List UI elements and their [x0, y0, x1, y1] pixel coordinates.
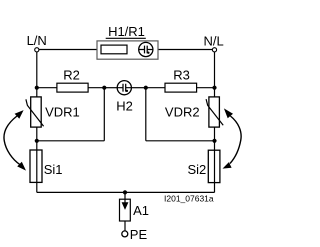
coupling arrow left (VDR1-Si1)	[4, 110, 26, 171]
wire vertical drop from node left of H2	[103, 88, 105, 141]
wire link H2-right drop to right rail	[146, 140, 215, 142]
wire right rail VDR2 to Si2	[214, 127, 216, 150]
lamp H2 (glow lamp)	[117, 81, 131, 95]
svg-text:Si1: Si1	[44, 162, 63, 177]
svg-text:N/L: N/L	[203, 33, 223, 48]
wire left rail mid node to VDR1	[36, 88, 38, 98]
resistor R2	[57, 83, 88, 92]
svg-text:VDR1: VDR1	[45, 104, 80, 119]
wire right rail mid node to VDR2	[214, 88, 216, 98]
wire right rail terminal to mid node	[214, 52, 216, 88]
wire R3 to right rail	[197, 87, 215, 89]
svg-text:L/N: L/N	[27, 33, 47, 48]
wire through fuse Si1	[36, 150, 38, 182]
terminal N/L	[212, 48, 216, 52]
node junction bottom A1	[123, 190, 127, 194]
wire A1 box bottom to PE terminal	[124, 221, 126, 231]
node junction right mid	[212, 86, 216, 90]
wire through fuse Si2	[214, 150, 216, 182]
wire H2 right electrode to node	[131, 87, 146, 89]
node junction right lower	[212, 139, 216, 143]
svg-text:Si2: Si2	[188, 162, 207, 177]
wire top-left from L/N terminal to H1/R1 box	[39, 49, 97, 51]
terminal PE	[122, 231, 128, 237]
svg-text:H1/R1: H1/R1	[108, 24, 145, 39]
wire left rail VDR1 to Si1	[36, 127, 38, 150]
svg-text:R3: R3	[173, 68, 190, 83]
fuse Si1	[30, 150, 42, 182]
enclosure box H1/R1	[97, 41, 158, 59]
wire left rail terminal to mid node	[36, 52, 38, 88]
resistor R1	[101, 45, 127, 54]
svg-text:I201_07631a: I201_07631a	[164, 194, 214, 204]
fuse Si2	[208, 150, 220, 182]
wire from H1/R1 box to N/L terminal	[158, 49, 212, 51]
svg-text:A1: A1	[133, 203, 149, 218]
svg-text:R2: R2	[63, 68, 80, 83]
node junction left of H2	[102, 86, 106, 90]
wire node to H2 left electrode	[104, 87, 117, 89]
wire link left rail to H2-left drop	[37, 140, 105, 142]
wire R2 to node left of H2	[88, 87, 104, 89]
wire middle left node to R2	[37, 87, 57, 89]
coupling arrow right (VDR2-Si2)	[223, 108, 242, 168]
svg-text:H2: H2	[116, 98, 133, 113]
terminal L/N	[35, 48, 39, 52]
wire bottom rail	[37, 191, 215, 193]
node junction left mid	[35, 86, 39, 90]
svg-text:VDR2: VDR2	[165, 104, 200, 119]
node junction left lower	[35, 139, 39, 143]
resistor R3	[165, 83, 197, 92]
lamp H1 (glow lamp)	[139, 42, 153, 56]
node junction right of H2	[144, 86, 148, 90]
wire right rail Si2 to bottom corner	[214, 182, 216, 192]
varistor VDR2	[206, 97, 223, 127]
label H1/R1	[106, 24, 146, 39]
wire vertical drop from node right of H2	[145, 88, 147, 141]
wire left rail Si1 to bottom corner	[36, 182, 38, 192]
wire node to R3	[146, 87, 165, 89]
varistor VDR1	[26, 97, 44, 127]
svg-text:PE: PE	[130, 227, 148, 242]
surge arrester A1	[120, 192, 131, 221]
